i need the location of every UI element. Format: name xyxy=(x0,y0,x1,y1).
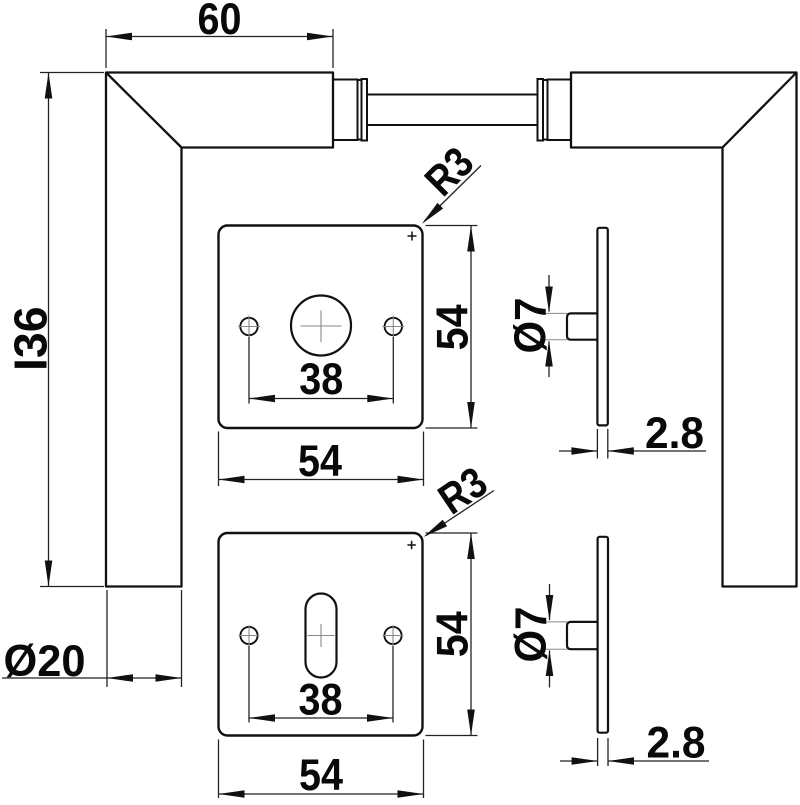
lower side view screw boss stub xyxy=(567,622,598,649)
svg-text:I36: I36 xyxy=(5,306,57,371)
left handle miter line xyxy=(107,73,182,148)
dimension 2.8 upper xyxy=(559,429,706,459)
dimension 54 vertical lower xyxy=(426,533,478,736)
upper left screw hole xyxy=(240,318,257,335)
svg-text:54: 54 xyxy=(298,437,342,486)
svg-text:Ø7: Ø7 xyxy=(506,298,555,354)
svg-text:60: 60 xyxy=(198,0,242,44)
svg-text:R3: R3 xyxy=(416,138,483,205)
dimension 38 lower xyxy=(249,646,393,723)
right handle miter line xyxy=(723,73,797,148)
right handle neck xyxy=(548,80,572,141)
dimension 136 xyxy=(40,73,104,587)
left handle neck xyxy=(333,80,358,141)
upper rosette bearing circle xyxy=(291,296,351,356)
svg-text:Ø20: Ø20 xyxy=(4,637,86,686)
dimension diameter 20 xyxy=(2,590,182,687)
dimension 2.8 lower xyxy=(560,738,709,766)
right collar ring B xyxy=(538,79,544,141)
svg-text:Ø7: Ø7 xyxy=(507,607,556,663)
R3 leader lower xyxy=(426,491,494,536)
lower rosette center cross xyxy=(308,624,335,647)
upper side view plate xyxy=(597,228,607,426)
spindle bottom line xyxy=(367,124,537,126)
upper rosette square plate xyxy=(219,226,423,429)
upper corner plus mark xyxy=(408,232,417,241)
dimension 60 xyxy=(106,29,333,68)
lower left screw hole xyxy=(240,627,257,644)
right handle lever L-outline xyxy=(571,73,797,587)
lower right screw hole xyxy=(384,627,401,644)
dimension diameter 7 lower xyxy=(546,584,567,688)
svg-text:2.8: 2.8 xyxy=(645,409,704,458)
right collar ring A xyxy=(543,80,548,140)
lower rosette key slot oval xyxy=(306,594,337,678)
dimension diameter 7 upper xyxy=(543,275,567,377)
lower corner plus mark xyxy=(407,541,415,549)
left handle lever L-outline xyxy=(106,73,333,587)
svg-text:R3: R3 xyxy=(430,458,496,524)
dimension 38 upper xyxy=(249,337,393,404)
dimension 54 vertical upper xyxy=(426,226,478,429)
dimension 54 horizontal upper xyxy=(219,432,424,487)
upper side view screw boss stub xyxy=(567,313,597,339)
svg-text:38: 38 xyxy=(299,676,343,725)
svg-text:54: 54 xyxy=(429,304,478,350)
lower rosette square plate xyxy=(219,533,423,736)
upper rosette center cross xyxy=(301,311,342,343)
R3 leader upper xyxy=(424,166,481,222)
left collar ring A xyxy=(358,80,362,140)
dimension 54 horizontal lower xyxy=(219,740,424,799)
left collar ring B xyxy=(362,79,368,141)
upper right screw hole xyxy=(385,318,402,335)
lower side view plate xyxy=(598,537,608,733)
svg-text:54: 54 xyxy=(429,611,478,657)
svg-text:38: 38 xyxy=(299,355,343,404)
svg-text:54: 54 xyxy=(299,751,343,800)
spindle top line xyxy=(367,94,537,96)
svg-text:2.8: 2.8 xyxy=(647,719,706,768)
